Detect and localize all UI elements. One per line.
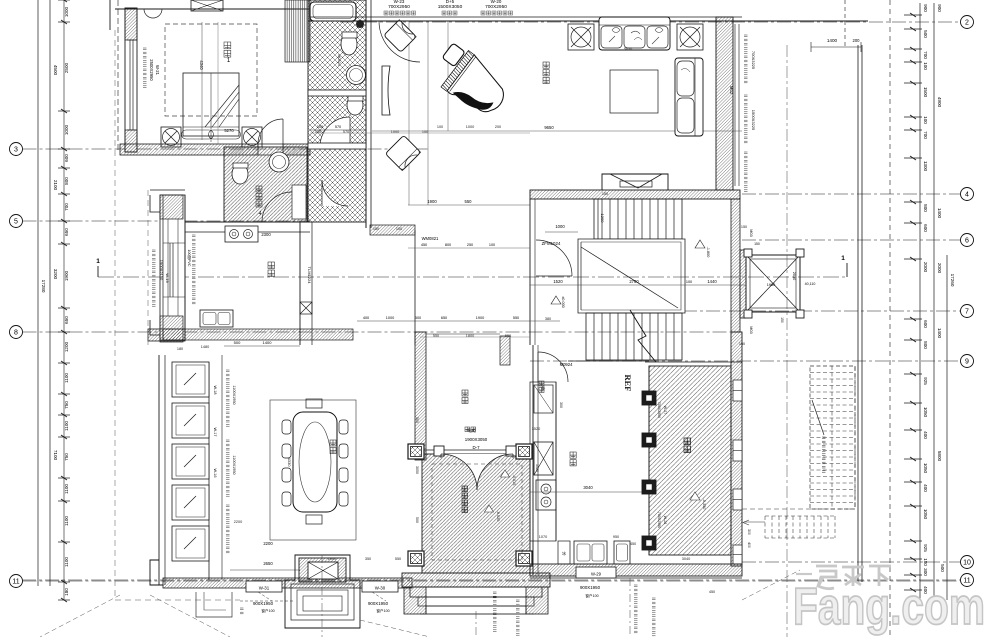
kitchen-terrace south wall bbox=[530, 564, 742, 598]
svg-text:1000: 1000 bbox=[391, 130, 399, 134]
svg-text:1100: 1100 bbox=[64, 484, 69, 494]
dining south wall bbox=[163, 541, 412, 592]
tea room hatch bbox=[224, 147, 307, 222]
svg-text:650: 650 bbox=[441, 316, 447, 320]
eave dashed lines bbox=[115, 30, 240, 600]
stair lower flight bbox=[586, 310, 682, 362]
terrace labels bbox=[657, 402, 706, 528]
svg-text:100: 100 bbox=[923, 116, 928, 124]
fence double line bbox=[787, 0, 862, 637]
svg-text:650: 650 bbox=[64, 228, 69, 236]
svg-text:500: 500 bbox=[234, 340, 241, 345]
terrace label bbox=[684, 438, 691, 453]
foyer east wall stub bbox=[500, 336, 510, 365]
walkway dashes bbox=[40, 570, 800, 637]
svg-text:17260: 17260 bbox=[950, 274, 955, 287]
kitchen label bbox=[570, 452, 576, 466]
svg-text:700X3225: 700X3225 bbox=[751, 51, 756, 70]
svg-text:300: 300 bbox=[559, 402, 563, 408]
svg-text:500: 500 bbox=[415, 517, 419, 523]
kitchen small labels bbox=[530, 381, 645, 492]
svg-text:7100: 7100 bbox=[53, 450, 58, 461]
chimney bay bbox=[285, 555, 360, 637]
svg-text:1: 1 bbox=[96, 258, 100, 265]
svg-text:150: 150 bbox=[602, 192, 608, 196]
bedside tables bbox=[161, 127, 262, 147]
section line 1 bbox=[96, 255, 847, 277]
kitchen west counters bbox=[530, 345, 556, 575]
svg-text:2030: 2030 bbox=[792, 272, 796, 280]
svg-text:1070: 1070 bbox=[539, 535, 547, 539]
svg-text:M03: M03 bbox=[749, 326, 753, 333]
family room east wall bbox=[716, 17, 756, 191]
svg-text:900: 900 bbox=[937, 4, 942, 12]
axis circle 7 right bbox=[660, 305, 974, 318]
svg-text:700X2950: 700X2950 bbox=[388, 4, 410, 10]
stair hall west wall and door bbox=[530, 199, 578, 345]
svg-text:1300: 1300 bbox=[923, 161, 928, 172]
armchair lower bbox=[385, 135, 420, 170]
scattered dims bbox=[177, 47, 747, 594]
axis circle 5 left bbox=[10, 215, 311, 228]
porch steps bbox=[402, 573, 550, 614]
svg-text:100: 100 bbox=[317, 125, 323, 129]
svg-text:REF: REF bbox=[623, 375, 633, 392]
svg-text:800: 800 bbox=[64, 177, 69, 185]
svg-text:1480: 1480 bbox=[201, 345, 209, 349]
svg-text:2100: 2100 bbox=[53, 180, 58, 191]
svg-text:1900: 1900 bbox=[427, 199, 437, 204]
bottom centerlines and notes bbox=[476, 578, 656, 637]
porch labels bbox=[462, 330, 516, 521]
svg-text:180: 180 bbox=[177, 347, 183, 351]
svg-text:M0824: M0824 bbox=[337, 54, 341, 66]
svg-text:W-27: W-27 bbox=[663, 406, 667, 415]
svg-text:W-30: W-30 bbox=[375, 586, 386, 591]
axis circle 2 right bbox=[340, 16, 974, 29]
family room north wall bbox=[310, 17, 868, 21]
chaise sofa bbox=[675, 58, 703, 136]
svg-text:M02: M02 bbox=[729, 86, 734, 95]
svg-text:1100: 1100 bbox=[64, 421, 69, 431]
axis circle 4 right bbox=[742, 188, 974, 201]
svg-text:3: 3 bbox=[14, 146, 18, 153]
svg-text:550: 550 bbox=[513, 316, 519, 320]
svg-text:1900X3050: 1900X3050 bbox=[465, 437, 488, 442]
svg-text:3040: 3040 bbox=[682, 557, 690, 561]
svg-text:窗户100: 窗户100 bbox=[585, 593, 598, 598]
svg-text:3050: 3050 bbox=[415, 466, 419, 474]
bedroom south wall bbox=[120, 119, 310, 155]
svg-text:9850: 9850 bbox=[624, 47, 632, 51]
entry porch hatch bbox=[408, 444, 532, 573]
svg-text:250: 250 bbox=[467, 243, 473, 247]
svg-text:2200: 2200 bbox=[263, 541, 273, 546]
svg-text:550: 550 bbox=[465, 199, 473, 204]
svg-text:D+5: D+5 bbox=[446, 0, 455, 4]
outdoor stair upper bbox=[810, 366, 855, 509]
svg-text:950: 950 bbox=[613, 535, 619, 539]
svg-text:2300: 2300 bbox=[261, 232, 271, 237]
svg-text:2650: 2650 bbox=[263, 561, 273, 566]
svg-text:6: 6 bbox=[965, 237, 969, 244]
svg-text:600: 600 bbox=[64, 154, 69, 162]
carpet bbox=[610, 70, 658, 113]
svg-text:W-28: W-28 bbox=[663, 516, 667, 525]
svg-text:1520: 1520 bbox=[553, 279, 563, 284]
axis circle 11 left bbox=[10, 575, 959, 588]
svg-text:1400: 1400 bbox=[937, 208, 942, 219]
bedroom dashed ceiling box bbox=[165, 24, 257, 116]
svg-text:450: 450 bbox=[630, 542, 636, 546]
svg-text:17280: 17280 bbox=[41, 280, 46, 293]
svg-text:4330: 4330 bbox=[287, 458, 292, 468]
svg-text:900: 900 bbox=[923, 4, 928, 12]
right dimension chain bbox=[890, 0, 955, 637]
svg-text:1900: 1900 bbox=[476, 316, 484, 320]
svg-text:500: 500 bbox=[415, 316, 421, 320]
dining window labels bbox=[213, 370, 236, 553]
svg-text:4500: 4500 bbox=[53, 65, 58, 76]
axis circle 10 right bbox=[742, 556, 974, 569]
svg-text:100: 100 bbox=[396, 227, 402, 231]
svg-text:700: 700 bbox=[923, 131, 928, 139]
svg-text:650: 650 bbox=[64, 316, 69, 324]
svg-text:ZFM1024: ZFM1024 bbox=[542, 241, 561, 246]
svg-text:1400: 1400 bbox=[937, 328, 942, 339]
interior reference lines bbox=[372, 21, 742, 205]
svg-text:1000: 1000 bbox=[466, 125, 474, 129]
svg-text:窗户100: 窗户100 bbox=[376, 608, 389, 613]
svg-text:W-23: W-23 bbox=[394, 0, 405, 4]
svg-text:9650: 9650 bbox=[544, 125, 554, 130]
svg-text:450: 450 bbox=[421, 243, 427, 247]
svg-text:1200: 1200 bbox=[64, 341, 69, 352]
svg-text:300: 300 bbox=[747, 529, 751, 535]
svg-text:750: 750 bbox=[64, 401, 69, 409]
svg-text:150: 150 bbox=[780, 317, 784, 323]
atrium north counter with stove bbox=[185, 222, 310, 242]
dining west window band bbox=[159, 355, 222, 585]
bedroom walls bbox=[110, 0, 310, 152]
svg-text:150: 150 bbox=[373, 227, 379, 231]
svg-text:2760: 2760 bbox=[629, 279, 639, 284]
svg-text:9: 9 bbox=[965, 358, 969, 365]
atrium sink bbox=[200, 310, 233, 327]
svg-text:800: 800 bbox=[923, 341, 928, 349]
svg-text:TLM1224: TLM1224 bbox=[307, 267, 312, 285]
svg-text:100厨PVC: 100厨PVC bbox=[187, 250, 192, 267]
svg-text:4: 4 bbox=[965, 191, 969, 198]
foyer west wall bbox=[415, 332, 426, 460]
svg-text:500: 500 bbox=[940, 564, 945, 572]
svg-text:3520: 3520 bbox=[532, 427, 540, 431]
axis circle 9 right bbox=[530, 355, 974, 368]
bedroom dims bbox=[199, 22, 234, 144]
svg-text:180: 180 bbox=[64, 588, 69, 596]
svg-text:1800: 1800 bbox=[466, 334, 474, 338]
svg-text:2000: 2000 bbox=[937, 263, 942, 274]
tea room label bbox=[256, 186, 262, 217]
terrace east wall bbox=[731, 332, 742, 566]
svg-text:3200: 3200 bbox=[53, 269, 58, 280]
svg-text:11: 11 bbox=[12, 578, 19, 585]
outdoor stair frame bbox=[742, 366, 855, 548]
svg-text:1100X1950: 1100X1950 bbox=[232, 455, 236, 474]
fridge label REF bbox=[623, 375, 633, 392]
svg-text:Fang.com: Fang.com bbox=[793, 578, 985, 636]
svg-text:800: 800 bbox=[923, 204, 928, 212]
bathroom labels bbox=[310, 54, 366, 130]
svg-text:1050: 1050 bbox=[923, 509, 928, 520]
svg-text:150: 150 bbox=[741, 225, 747, 229]
svg-text:1000: 1000 bbox=[555, 224, 565, 229]
kitchen door bbox=[538, 352, 573, 382]
svg-text:200: 200 bbox=[853, 38, 861, 43]
axis circle 11 right bbox=[22, 574, 974, 587]
svg-text:1500X3225: 1500X3225 bbox=[751, 110, 756, 131]
svg-text:1050: 1050 bbox=[923, 463, 928, 474]
svg-text:700X2950: 700X2950 bbox=[485, 4, 507, 10]
svg-text:1000: 1000 bbox=[328, 557, 336, 561]
armchair upper bbox=[384, 20, 417, 53]
window label W-21 bbox=[143, 48, 160, 87]
svg-text:8: 8 bbox=[14, 329, 18, 336]
svg-text:100: 100 bbox=[315, 130, 321, 134]
svg-text:1400: 1400 bbox=[827, 38, 838, 43]
svg-text:925: 925 bbox=[923, 377, 928, 385]
sofa side tables bbox=[568, 24, 703, 50]
svg-text:150: 150 bbox=[754, 242, 760, 246]
svg-text:5270: 5270 bbox=[224, 128, 234, 133]
svg-text:450: 450 bbox=[709, 590, 715, 594]
svg-text:4340: 4340 bbox=[199, 60, 204, 70]
svg-text:W-20: W-20 bbox=[491, 0, 502, 4]
svg-text:7: 7 bbox=[965, 308, 969, 315]
top dimension labels bbox=[384, 0, 861, 52]
svg-text:窗户100: 窗户100 bbox=[261, 608, 274, 613]
foyer door label bbox=[465, 427, 488, 450]
axis circle 8 left bbox=[10, 326, 743, 339]
svg-text:W-16: W-16 bbox=[213, 468, 217, 477]
svg-text:M0924: M0924 bbox=[560, 362, 573, 367]
svg-text:400: 400 bbox=[747, 542, 751, 548]
atrium east wall bbox=[300, 222, 312, 345]
svg-text:1000: 1000 bbox=[386, 316, 394, 320]
svg-text:700: 700 bbox=[64, 203, 69, 211]
svg-text:1050: 1050 bbox=[923, 407, 928, 418]
room label bedroom bbox=[224, 42, 231, 64]
svg-text:1100: 1100 bbox=[64, 373, 69, 383]
svg-text:500: 500 bbox=[923, 30, 928, 38]
svg-text:1: 1 bbox=[841, 255, 845, 262]
watermark bbox=[793, 566, 985, 636]
three-seat sofa bbox=[599, 17, 670, 50]
svg-text:1000: 1000 bbox=[64, 6, 69, 17]
svg-text:2500: 2500 bbox=[64, 62, 69, 73]
dining label bbox=[330, 440, 336, 454]
svg-text:900X1950: 900X1950 bbox=[580, 585, 601, 590]
svg-text:100: 100 bbox=[422, 130, 428, 134]
svg-text:600: 600 bbox=[923, 320, 928, 328]
band divider walls bbox=[308, 21, 366, 149]
svg-text:800: 800 bbox=[445, 243, 451, 247]
svg-text:1400: 1400 bbox=[263, 340, 273, 345]
svg-text:2000: 2000 bbox=[923, 262, 928, 273]
svg-text:冰: 冰 bbox=[562, 550, 566, 556]
svg-text:1100X1950: 1100X1950 bbox=[232, 385, 236, 404]
foyer label bbox=[462, 390, 468, 404]
wardrobe bbox=[285, 0, 310, 62]
svg-text:400: 400 bbox=[363, 316, 369, 320]
svg-text:3040: 3040 bbox=[583, 485, 593, 490]
svg-text:700X2950: 700X2950 bbox=[657, 512, 661, 528]
family room door arc bbox=[379, 21, 420, 62]
console table bbox=[382, 66, 390, 115]
svg-text:1900X2150: 1900X2150 bbox=[159, 260, 164, 281]
kitchen south sinks bbox=[558, 541, 630, 564]
svg-text:100: 100 bbox=[437, 125, 443, 129]
svg-text:1520: 1520 bbox=[535, 464, 539, 472]
bottom window labels bbox=[240, 592, 390, 614]
svg-text:400: 400 bbox=[923, 431, 928, 439]
svg-text:W-31: W-31 bbox=[259, 586, 270, 591]
dining table bbox=[270, 399, 356, 540]
svg-text:570: 570 bbox=[343, 130, 349, 134]
bedroom bed bbox=[182, 73, 241, 142]
exterior shaft bbox=[740, 229, 815, 333]
stair dims bbox=[530, 240, 745, 308]
svg-text:550: 550 bbox=[505, 334, 511, 338]
svg-text:2500X2950: 2500X2950 bbox=[149, 59, 154, 81]
atrium west labels bbox=[152, 235, 196, 306]
svg-text:1960: 1960 bbox=[767, 283, 775, 287]
stair upper flight bbox=[594, 199, 682, 270]
svg-text:925: 925 bbox=[923, 544, 928, 552]
mid dims bbox=[224, 316, 560, 346]
svg-text:5: 5 bbox=[14, 218, 18, 225]
svg-text:4900: 4900 bbox=[937, 97, 942, 108]
svg-text:-0.020: -0.020 bbox=[496, 511, 500, 522]
stair east wall bbox=[731, 199, 740, 332]
svg-text:W-17: W-17 bbox=[213, 427, 217, 436]
axis circle 3 left bbox=[10, 143, 431, 156]
bathroom crosshatch block bbox=[308, 0, 371, 228]
svg-text:-0.015: -0.015 bbox=[512, 475, 516, 486]
svg-text:550: 550 bbox=[433, 334, 439, 338]
extra dim lines bbox=[310, 133, 649, 361]
svg-text:W-19: W-19 bbox=[165, 273, 170, 283]
grand piano bbox=[428, 40, 515, 121]
svg-text:1200: 1200 bbox=[600, 214, 605, 224]
svg-text:4: 4 bbox=[259, 211, 262, 217]
svg-text:700: 700 bbox=[923, 51, 928, 59]
axis circle 6 right bbox=[742, 234, 974, 247]
svg-text:1000: 1000 bbox=[64, 124, 69, 135]
svg-text:±0.000: ±0.000 bbox=[561, 296, 565, 308]
svg-text:W-21: W-21 bbox=[155, 65, 160, 76]
svg-text:1440: 1440 bbox=[707, 279, 717, 284]
svg-text:150: 150 bbox=[739, 342, 745, 346]
svg-text:570: 570 bbox=[335, 125, 341, 129]
svg-text:500: 500 bbox=[415, 417, 419, 423]
svg-text:900X1950: 900X1950 bbox=[368, 601, 389, 606]
svg-text:10: 10 bbox=[963, 559, 971, 566]
svg-text:W-29: W-29 bbox=[591, 572, 602, 577]
svg-text:600: 600 bbox=[923, 224, 928, 232]
svg-text:100: 100 bbox=[923, 62, 928, 70]
svg-text:350: 350 bbox=[365, 557, 371, 561]
svg-text:100: 100 bbox=[686, 280, 692, 284]
stair landing bbox=[578, 239, 685, 313]
svg-text:1900: 1900 bbox=[64, 270, 69, 281]
terrace hatch bbox=[642, 362, 742, 555]
left dimension chain bbox=[38, 0, 70, 602]
svg-text:1500X3050: 1500X3050 bbox=[438, 4, 463, 10]
svg-text:2: 2 bbox=[965, 19, 969, 26]
svg-text:300: 300 bbox=[923, 568, 928, 576]
outdoor stair lower bbox=[743, 516, 836, 538]
svg-text:1100: 1100 bbox=[64, 516, 69, 526]
svg-text:40,110: 40,110 bbox=[805, 282, 816, 286]
svg-text:700X2950: 700X2950 bbox=[657, 402, 661, 418]
svg-text:550: 550 bbox=[395, 557, 401, 561]
stair top wall and niche bbox=[530, 174, 740, 199]
svg-text:-1.800: -1.800 bbox=[706, 247, 710, 258]
family room label bbox=[543, 62, 549, 84]
svg-text:380: 380 bbox=[545, 317, 551, 321]
atrium label bbox=[268, 262, 275, 277]
svg-text:2200: 2200 bbox=[234, 520, 242, 524]
svg-text:1100: 1100 bbox=[64, 557, 69, 567]
svg-text:400: 400 bbox=[923, 484, 928, 492]
svg-text:D-7: D-7 bbox=[472, 445, 480, 450]
svg-text:5800: 5800 bbox=[937, 451, 942, 462]
svg-text:WM0821: WM0821 bbox=[422, 236, 439, 241]
atrium west wall bbox=[148, 190, 353, 342]
svg-text:750: 750 bbox=[64, 453, 69, 461]
svg-text:M03: M03 bbox=[749, 229, 753, 236]
svg-text:100: 100 bbox=[489, 243, 495, 247]
svg-text:200: 200 bbox=[495, 125, 501, 129]
svg-text:W-18: W-18 bbox=[213, 385, 217, 394]
dining SW corner bbox=[150, 560, 232, 617]
svg-text:900X1950: 900X1950 bbox=[253, 601, 274, 606]
passage walls bbox=[370, 225, 530, 345]
svg-text:1500: 1500 bbox=[923, 87, 928, 98]
svg-text:-0.350: -0.350 bbox=[702, 499, 706, 510]
